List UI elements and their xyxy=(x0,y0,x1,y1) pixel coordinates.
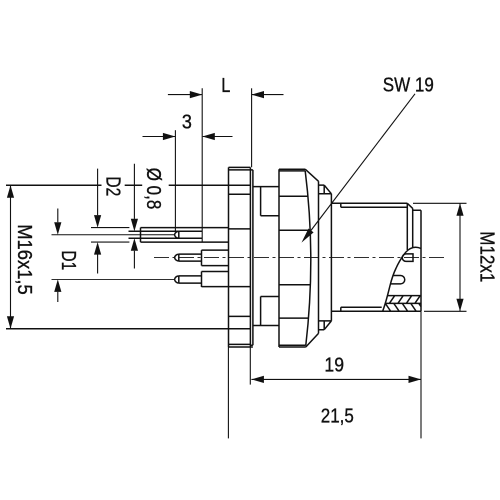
centerline over slot xyxy=(154,256,446,258)
upper pin axis line xyxy=(52,234,176,236)
extension line front face xyxy=(420,311,422,438)
extension line sleeve face xyxy=(201,88,203,242)
washer step behind hex xyxy=(253,187,279,326)
hex facet lines xyxy=(279,196,310,318)
middle contact sleeve xyxy=(202,250,229,266)
thread section hatch boundaries xyxy=(386,296,421,304)
svg-text:L: L xyxy=(221,73,230,96)
extension line 21,5 left xyxy=(227,347,229,438)
dimension M12x1 vertical right xyxy=(413,203,467,311)
upper pin bullet tip xyxy=(175,231,179,238)
contact hole slot middle xyxy=(402,254,413,262)
rear tube M16 outline bottom xyxy=(6,328,251,330)
hex nut SW19 xyxy=(279,169,319,347)
upper contact pin 0.8 xyxy=(129,231,203,238)
flange interior lines xyxy=(229,194,251,316)
rear tube M16 outline top xyxy=(6,184,251,186)
dimension M16x1,5 vertical xyxy=(7,185,14,328)
svg-text:SW 19: SW 19 xyxy=(383,73,434,96)
label SW 19 xyxy=(383,73,434,96)
front cylinder M12 thread xyxy=(331,194,421,321)
label 21,5 xyxy=(321,404,354,427)
label M16x1,5 xyxy=(13,224,35,295)
label diameter 0,8 xyxy=(143,168,166,210)
middle pin bullet tip xyxy=(175,254,179,261)
label L xyxy=(221,73,230,96)
extension line 19 left xyxy=(249,348,251,385)
gasket plate xyxy=(250,170,253,345)
thread section hatching xyxy=(386,296,422,311)
svg-text:19: 19 xyxy=(324,353,344,375)
lower contact pin xyxy=(179,276,202,283)
label D1 xyxy=(57,250,79,270)
dimension D1 vertical xyxy=(54,209,61,303)
middle contact pin xyxy=(179,254,202,261)
svg-text:21,5: 21,5 xyxy=(321,404,354,427)
svg-text:Ø 0,8: Ø 0,8 xyxy=(143,168,166,210)
label D2 xyxy=(102,176,124,196)
lower contact sleeve xyxy=(202,272,251,288)
o-ring groove upper xyxy=(319,185,332,194)
dimension 3 line with arrows xyxy=(143,133,233,140)
svg-text:3: 3 xyxy=(182,112,192,134)
D2 extension ticks xyxy=(91,228,129,243)
o-ring groove lower xyxy=(319,321,332,330)
dimension D2 vertical xyxy=(94,169,101,274)
label 19 xyxy=(324,353,344,375)
dimension L line with arrows xyxy=(168,91,284,98)
svg-text:D1: D1 xyxy=(57,250,79,270)
upper contact tube xyxy=(141,228,229,243)
SW 19 leader line xyxy=(302,94,416,243)
dimension 19 bottom xyxy=(251,376,421,383)
label 3 xyxy=(182,112,192,134)
extension line 3 left xyxy=(174,130,176,231)
svg-text:M16x1,5: M16x1,5 xyxy=(13,224,35,295)
hex facet curve xyxy=(305,171,311,345)
lower pin bullet tip xyxy=(175,276,179,283)
label M12x1 xyxy=(476,231,499,282)
dimension 0.8 vertical xyxy=(131,164,138,269)
svg-text:D2: D2 xyxy=(102,176,124,196)
svg-text:M12x1: M12x1 xyxy=(476,231,499,282)
extension line L right xyxy=(251,88,253,167)
break-out section curve xyxy=(383,247,421,311)
contact hole slot lower xyxy=(391,275,405,283)
flange plate xyxy=(229,167,253,347)
lower pin axis line xyxy=(52,278,175,280)
